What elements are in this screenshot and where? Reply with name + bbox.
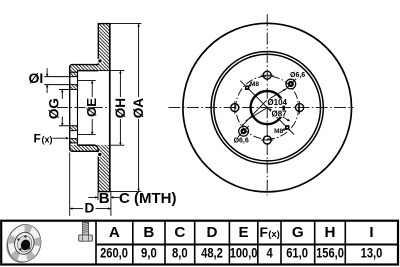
bolt hole bottom: [261, 136, 274, 144]
column dividers: [95, 221, 97, 265]
bolt icon in table: [79, 222, 93, 241]
svg-text:F: F: [260, 225, 268, 240]
svg-text:48,2: 48,2: [201, 246, 223, 261]
outline: flange left face: [69, 66, 71, 149]
notch dot top: [97, 58, 103, 64]
section hatch: bend + friction ring bottom: [78, 145, 110, 192]
extension for OH top: [98, 70, 124, 72]
diagonal segment through upper-right hole: [285, 79, 296, 90]
svg-text:M8: M8: [250, 81, 259, 88]
leader O104 lower: [244, 100, 267, 124]
outline: hat strip top edge (bottom half): [78, 144, 96, 146]
svg-text:G: G: [292, 224, 304, 241]
bolt hole top: [261, 71, 274, 79]
svg-text:9,0: 9,0: [141, 246, 157, 261]
outline: hat strip top edge with round corner: [70, 65, 99, 68]
table outer border: [1, 221, 398, 265]
section hatch: hat strip bottom: [70, 145, 99, 151]
outline: flange bottom edge: [70, 142, 78, 144]
svg-text:C: C: [174, 224, 185, 241]
extension for OH bottom: [110, 144, 125, 146]
dim OG: [61, 90, 63, 99]
extension lines OA: [110, 23, 142, 25]
center bore: [251, 91, 284, 124]
svg-text:D: D: [207, 224, 218, 241]
svg-text:ØI: ØI: [29, 70, 44, 86]
outline: ring top edge: [98, 23, 111, 25]
svg-text:B: B: [99, 190, 110, 207]
section hatch: friction ring top: [98, 24, 110, 71]
disc icon in table: [2, 220, 46, 267]
svg-text:Ø104: Ø104: [267, 98, 287, 107]
outline: bend fillet bottom: [95, 145, 98, 151]
arrow M8 lower: [282, 129, 285, 131]
M8 hole upper-left: [245, 85, 250, 90]
dim OA: [138, 24, 140, 97]
svg-text:A: A: [109, 224, 120, 241]
diagonal segment lower-left of center: [246, 108, 267, 121]
section hatch: flange cells bottom: [70, 126, 78, 131]
svg-text:E: E: [239, 224, 249, 241]
svg-text:C (MTH): C (MTH): [119, 190, 176, 207]
svg-text:H: H: [325, 224, 336, 241]
svg-text:8,0: 8,0: [172, 246, 188, 261]
outline: flange right face: [77, 71, 79, 146]
section hatch: hat strip top: [70, 65, 99, 71]
svg-text:(x): (x): [268, 229, 280, 240]
outline: hat strip bottom edge with round corner: [70, 149, 99, 152]
M8 diagonal centerline: [240, 81, 294, 135]
svg-text:Ø6,6: Ø6,6: [290, 72, 305, 79]
dim OH: [119, 71, 121, 97]
svg-text:Ø6,6: Ø6,6: [234, 138, 249, 145]
dim OE: [91, 81, 93, 97]
6.6 hole upper-right: [286, 79, 296, 89]
friction inner double circle: [211, 52, 323, 164]
svg-text:I: I: [369, 224, 373, 241]
dim D line: [70, 208, 83, 210]
F(x) arrow: [53, 137, 69, 139]
M8 hole lower-right: [285, 125, 290, 130]
arrow M8 upper: [249, 84, 252, 86]
svg-text:100,0: 100,0: [230, 246, 258, 261]
outline: ring bottom edge: [98, 191, 111, 193]
axis centerline: [57, 107, 110, 109]
bolt hole right: [296, 101, 304, 114]
horizontal centerline: [169, 107, 354, 109]
section hatch: flange cells top: [70, 71, 78, 77]
dim B arrows: [88, 196, 97, 198]
ext for B left: [97, 192, 99, 200]
svg-text:Ø87: Ø87: [272, 110, 288, 119]
outline: ring inner face top: [97, 24, 99, 65]
notch dot bottom: [97, 152, 103, 158]
outline: bolt hole bottom edges: [70, 130, 78, 132]
outer circle: [183, 23, 352, 192]
vertical centerline: [266, 14, 268, 195]
outline: ring inner face bottom: [97, 151, 99, 191]
svg-text:156,0: 156,0: [316, 246, 344, 261]
svg-text:4: 4: [267, 246, 274, 261]
svg-text:61,0: 61,0: [286, 246, 308, 261]
label O104: [267, 99, 286, 106]
leader O104 upper: [270, 89, 286, 99]
label O87: [271, 110, 286, 117]
svg-text:ØH: ØH: [113, 98, 128, 118]
svg-text:ØA: ØA: [131, 98, 146, 119]
svg-text:F: F: [34, 132, 41, 146]
outline: flange top edge: [70, 71, 78, 73]
svg-text:ØG: ØG: [47, 98, 62, 119]
outline: hat strip bottom edge (top half): [78, 70, 99, 72]
outline: bolt hole top edges: [44, 76, 77, 78]
svg-text:13,0: 13,0: [361, 246, 383, 261]
leader O87: [269, 109, 290, 121]
dim D extensions: [69, 153, 71, 216]
svg-text:B: B: [143, 224, 154, 241]
extension lines OE: [78, 80, 96, 82]
svg-text:M8: M8: [274, 128, 283, 135]
svg-text:(x): (x): [42, 134, 53, 144]
svg-text:260,0: 260,0: [100, 246, 128, 261]
svg-text:ØE: ØE: [84, 98, 99, 117]
table headers: [109, 224, 374, 241]
bolt circle (dash-dot): [236, 76, 299, 139]
outline: hub outer face: [109, 24, 111, 192]
row divider: [96, 244, 398, 246]
diagonal segment through lower-left hole: [238, 126, 249, 137]
outline: bore edges: [59, 89, 78, 91]
6.6 hole lower-left: [239, 126, 249, 136]
bolt hole left: [231, 101, 239, 114]
table values: [100, 246, 382, 261]
dim OI: [46, 68, 48, 76]
svg-text:D: D: [85, 200, 95, 215]
